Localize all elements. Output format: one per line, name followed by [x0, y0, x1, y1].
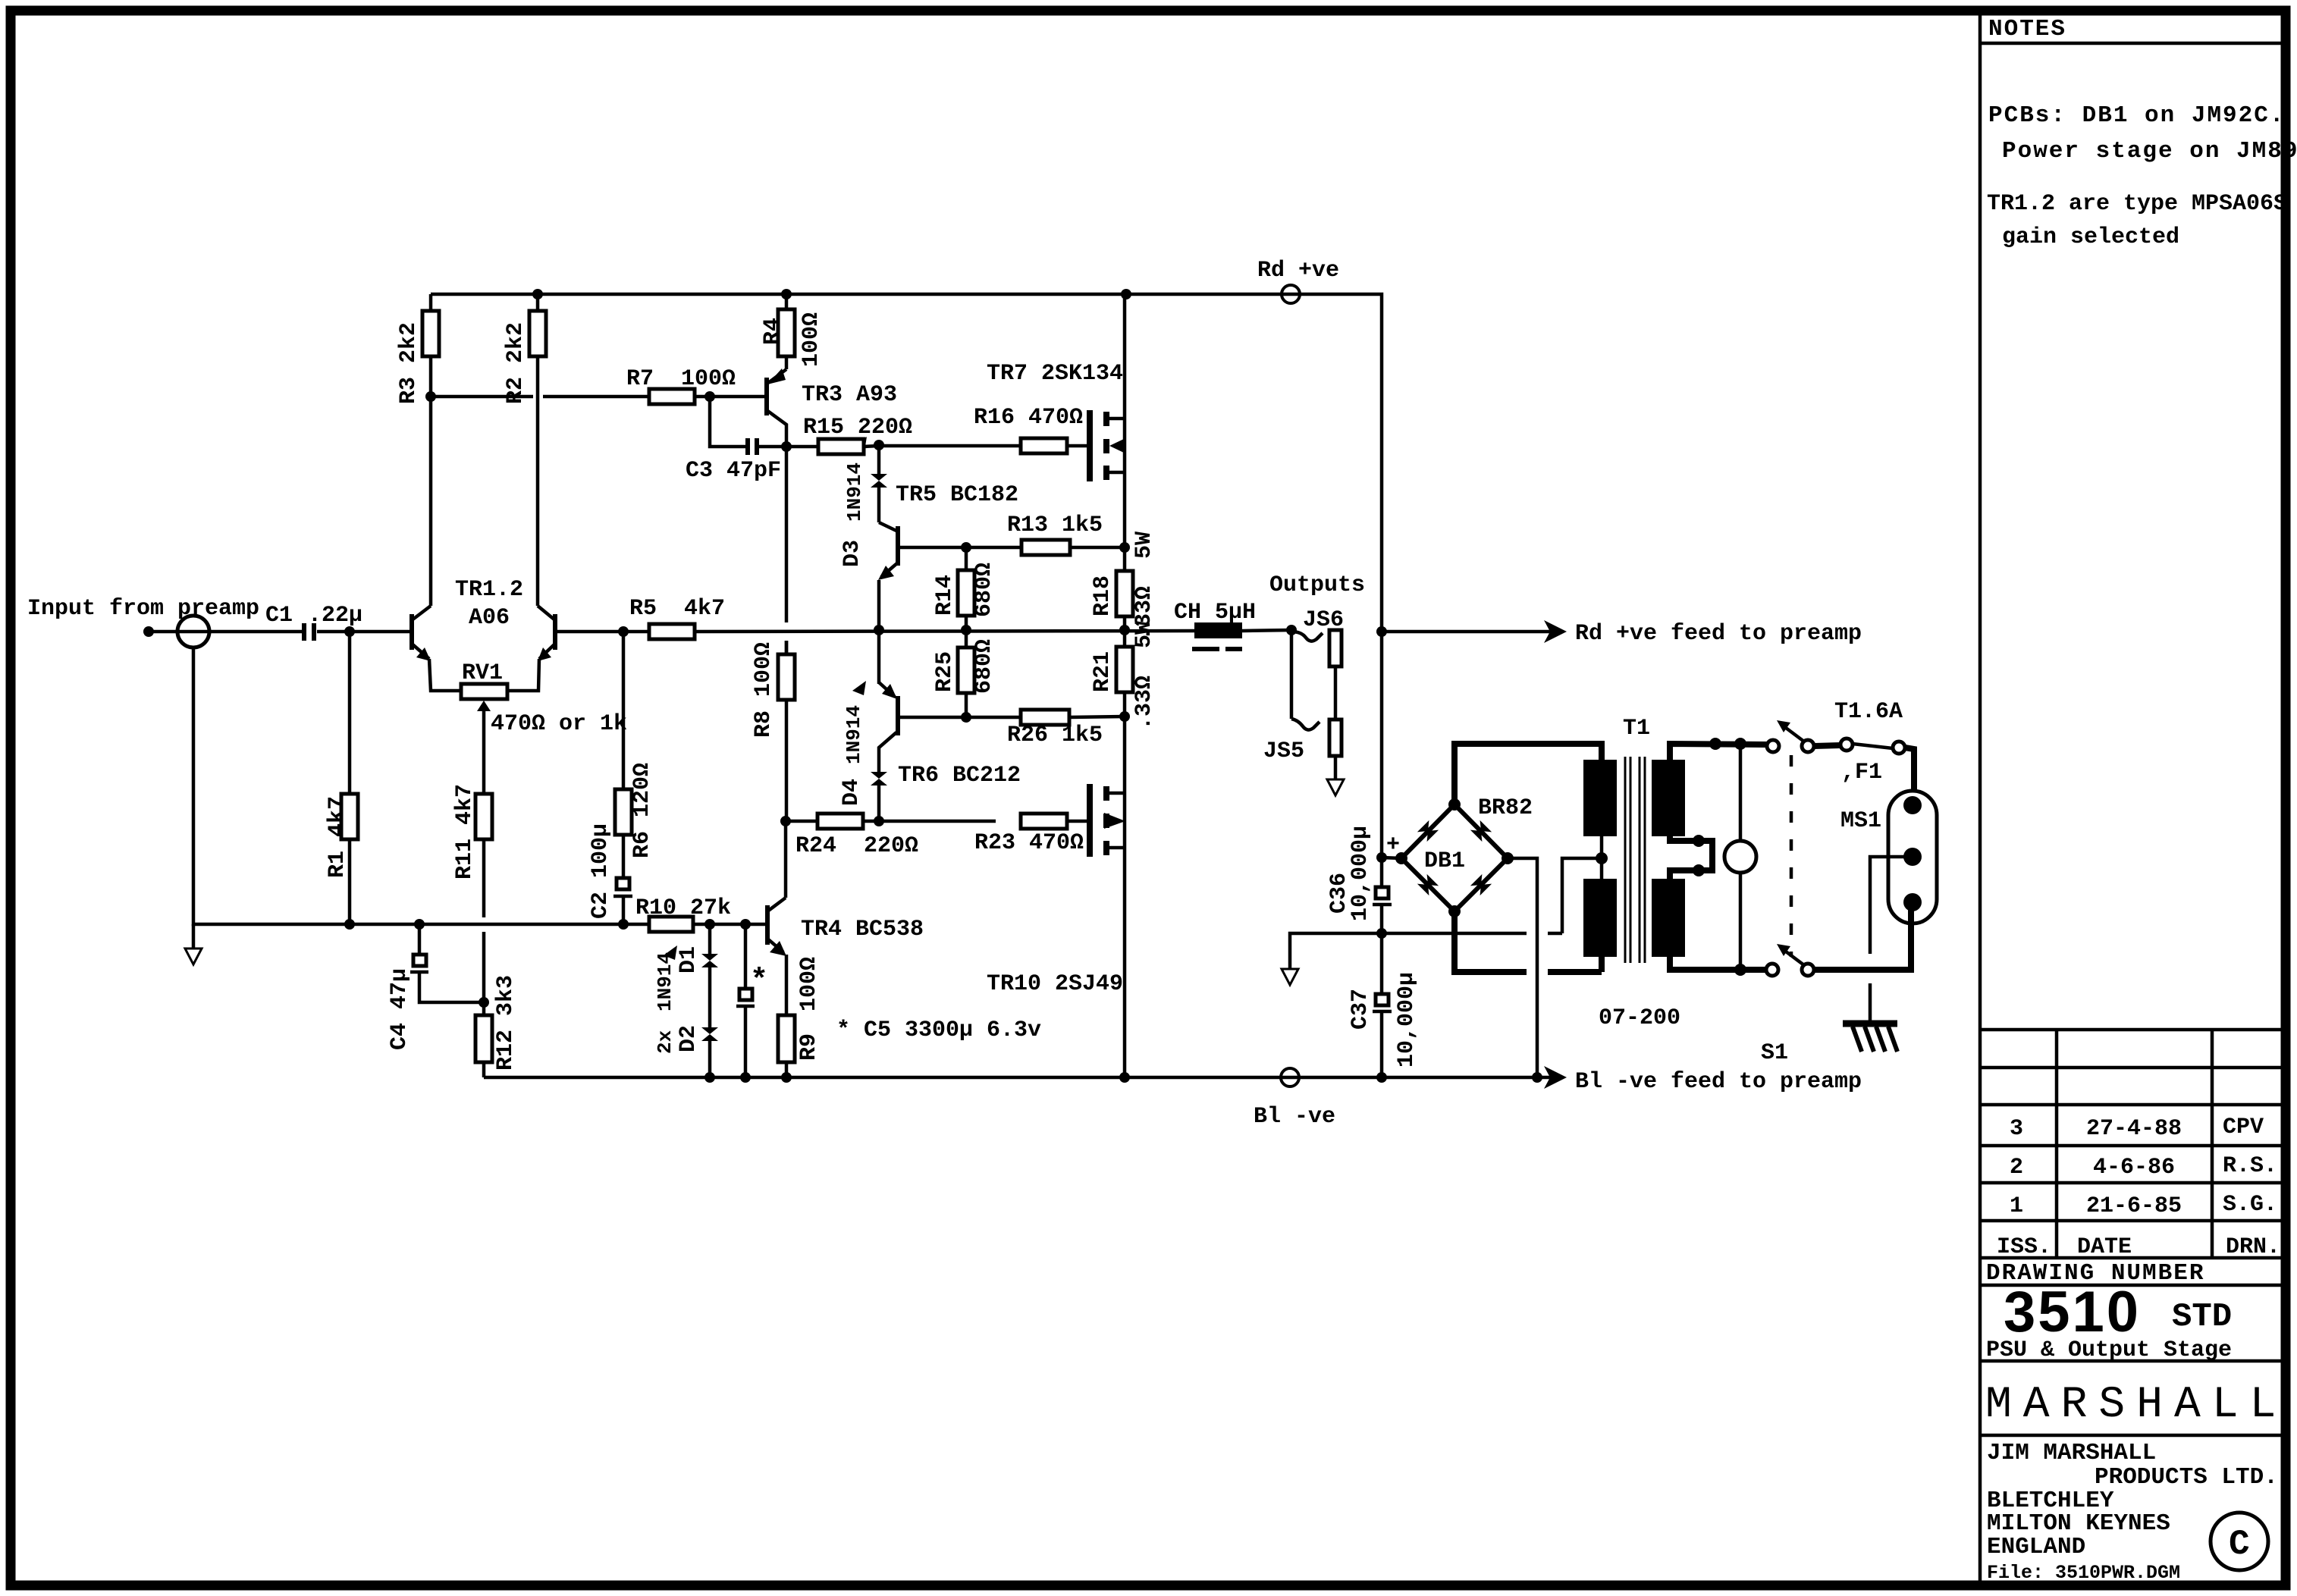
svg-text:TR10 2SJ49: TR10 2SJ49 — [987, 971, 1123, 997]
resistor R15 220ohm — [786, 445, 818, 449]
svg-text:R6 120Ω: R6 120Ω — [629, 763, 655, 858]
svg-text:R.S.: R.S. — [2223, 1153, 2277, 1179]
node C5 bottom — [740, 1072, 751, 1083]
node Rd+ve column / C36 top junction — [1376, 852, 1387, 863]
svg-text:R18: R18 — [1090, 575, 1116, 616]
node 0V junction C36/C37 — [1376, 928, 1387, 939]
mosfet TR7 2SK134 — [1087, 410, 1093, 481]
svg-text:PRODUCTS LTD.: PRODUCTS LTD. — [2095, 1464, 2278, 1491]
diode D1 1N914 — [708, 924, 712, 954]
svg-text:DB1: DB1 — [1424, 848, 1465, 874]
connector JS6 — [1291, 632, 1323, 641]
svg-text:3510: 3510 — [2004, 1280, 2141, 1344]
switch S1 upper pole — [1767, 740, 1779, 752]
svg-text:R16 470Ω: R16 470Ω — [974, 405, 1083, 431]
node top rail R4 — [781, 289, 792, 299]
svg-text:680Ω: 680Ω — [971, 639, 997, 694]
transformer T1 secondary winding lower — [1583, 879, 1617, 957]
svg-text:1N914: 1N914 — [843, 462, 866, 522]
resistor R10 27k — [649, 917, 693, 932]
diode DB1 top-left — [1417, 820, 1439, 842]
svg-text:R2 2k2: R2 2k2 — [503, 322, 529, 404]
svg-text:TR4 BC538: TR4 BC538 — [801, 917, 924, 942]
svg-text:2: 2 — [2010, 1155, 2023, 1181]
svg-text:3: 3 — [2010, 1116, 2023, 1142]
transistor TR4 BC538 — [765, 905, 770, 945]
node C2 bottom — [618, 919, 629, 930]
wire Rd +ve feed to preamp — [1382, 630, 1551, 634]
svg-text:T1: T1 — [1623, 716, 1650, 742]
transistor TR1 (A06) — [410, 614, 414, 650]
svg-text:TR3 A93: TR3 A93 — [802, 382, 897, 408]
svg-text:2x: 2x — [654, 1030, 676, 1054]
svg-text:RV1: RV1 — [462, 660, 503, 686]
capacitor C2 100u — [617, 878, 629, 889]
node top rail R2 — [532, 289, 543, 299]
resistor R9 100ohm — [785, 955, 789, 1015]
connector JS5 — [1290, 632, 1294, 719]
svg-text:10,000µ: 10,000µ — [1348, 826, 1373, 921]
Revision table text — [1986, 1115, 2280, 1287]
svg-text:MARSHALL: MARSHALL — [1985, 1381, 2287, 1430]
svg-text:gain selected: gain selected — [2002, 224, 2179, 250]
transformer T1 primary winding lower — [1652, 879, 1685, 957]
switch S1 lower pole — [1766, 964, 1778, 976]
resistor R6 120ohm — [622, 632, 626, 789]
node R14 top / TR5 base — [961, 542, 971, 553]
svg-text:R5 4k7: R5 4k7 — [629, 596, 725, 622]
transformer T1 secondary winding upper — [1583, 760, 1617, 836]
resistor R4 100ohm — [785, 294, 789, 309]
svg-text:R21: R21 — [1090, 651, 1116, 692]
fuse F1 T1.6A — [1840, 738, 1853, 751]
svg-text:C37: C37 — [1348, 989, 1373, 1030]
wire DB1 top to secondary winding — [1454, 744, 1602, 804]
svg-text:DRN.: DRN. — [2226, 1234, 2280, 1260]
svg-text:MS1: MS1 — [1840, 808, 1881, 834]
node Bl -ve terminal circle — [1281, 1068, 1299, 1086]
node R24/D4 junction — [874, 816, 884, 826]
wire S1 lower to MS1 bottom pin — [1814, 902, 1911, 970]
wire primary top lead — [1670, 744, 1767, 760]
transformer T1 core — [1625, 757, 1645, 963]
svg-text:A06: A06 — [469, 605, 510, 631]
capacitor C1 — [302, 623, 306, 641]
svg-text:* C5 3300µ 6.3v: * C5 3300µ 6.3v — [836, 1017, 1041, 1043]
resistor R18 .33ohm 5W — [1123, 547, 1127, 571]
svg-text:*: * — [750, 964, 768, 999]
svg-text:JIM MARSHALL: JIM MARSHALL — [1987, 1440, 2156, 1466]
node R3 bottom junction — [425, 391, 436, 402]
svg-text:R7 100Ω: R7 100Ω — [626, 366, 736, 392]
svg-text:TR7 2SK134: TR7 2SK134 — [987, 361, 1123, 387]
resistor R7 100ohm — [649, 389, 695, 404]
node Rd +ve terminal circle — [1282, 285, 1300, 303]
node C4 top — [414, 919, 425, 930]
resistor R21 .33ohm 5W — [1123, 630, 1127, 647]
svg-text:CPV: CPV — [2223, 1115, 2264, 1140]
svg-text:R26 1k5: R26 1k5 — [1007, 723, 1103, 748]
svg-text:R15 220Ω: R15 220Ω — [803, 415, 912, 441]
node R7/C3 junction — [704, 391, 715, 402]
svg-text:C4 47µ: C4 47µ — [387, 968, 413, 1050]
svg-text:ISS.: ISS. — [1997, 1234, 2051, 1260]
svg-text:STD: STD — [2172, 1298, 2232, 1336]
svg-text:S1: S1 — [1761, 1040, 1788, 1066]
node output line / R18 / R21 — [1119, 625, 1130, 635]
resistor R25 680ohm — [965, 630, 968, 647]
ground chassis earth — [1843, 1021, 1897, 1027]
resistor R12 3k3 — [475, 1015, 492, 1062]
resistor R13 1k5 — [1021, 540, 1070, 555]
svg-text:TR6 BC212: TR6 BC212 — [898, 763, 1021, 789]
wire Bl -ve rail — [484, 1076, 1551, 1080]
node D2 bottom — [704, 1072, 715, 1083]
node C1/R1 junction — [344, 626, 355, 637]
svg-text:Rd +ve feed to preamp: Rd +ve feed to preamp — [1575, 621, 1862, 647]
node R15/D3 junction — [874, 440, 884, 450]
node R9 bottom — [781, 1072, 792, 1083]
svg-text:R8 100Ω: R8 100Ω — [751, 642, 777, 738]
node output / JS6 junction — [1286, 625, 1297, 635]
svg-text:MILTON KEYNES: MILTON KEYNES — [1987, 1510, 2170, 1537]
svg-text:TR1.2 are type MPSA06S: TR1.2 are type MPSA06S — [1987, 191, 2287, 217]
node R21/R26/TR10 source — [1119, 711, 1130, 722]
diode DB1 top-right — [1470, 820, 1492, 842]
svg-text:T1.6A: T1.6A — [1834, 699, 1903, 725]
diode DB1 bottom-right — [1470, 874, 1492, 895]
wire TR2 base to R5 — [555, 630, 649, 634]
node R1 bottom — [344, 919, 355, 930]
svg-text:21-6-85: 21-6-85 — [2086, 1193, 2182, 1219]
resistor R8 100ohm — [785, 641, 789, 654]
transistor TR6 BC212 — [896, 696, 900, 735]
node input terminal dot — [143, 626, 154, 637]
mains socket MS1 — [1888, 791, 1937, 923]
wire S1 to fuse — [1814, 745, 1840, 746]
diode DB1 bottom-left — [1417, 874, 1439, 895]
transistor TR5 BC182 — [896, 526, 900, 566]
node C37 bottom — [1376, 1072, 1387, 1083]
wire mid ground rail — [350, 923, 649, 927]
node top rail TR7 drain — [1121, 289, 1131, 299]
capacitor C3 47pF — [710, 397, 746, 447]
svg-text:,F1: ,F1 — [1841, 760, 1882, 785]
svg-text:S.G.: S.G. — [2223, 1192, 2277, 1218]
svg-text:Rd +ve: Rd +ve — [1257, 258, 1339, 284]
svg-text:27-4-88: 27-4-88 — [2086, 1116, 2182, 1142]
svg-text:.33Ω 5W: .33Ω 5W — [1131, 621, 1157, 730]
node input circle — [177, 616, 209, 647]
copyright C mark — [2211, 1513, 2268, 1570]
lamp neon indicator — [1739, 744, 1743, 841]
node TR7 source / R13 / R18 — [1119, 542, 1130, 553]
ground input arrow — [192, 924, 196, 949]
svg-text:C1: C1 — [265, 603, 293, 629]
wire 0V line to ground arrow — [1290, 933, 1382, 969]
svg-text:Outputs: Outputs — [1269, 572, 1365, 598]
wire TR4 collector up to R8/R24 node — [784, 821, 788, 898]
node C4/R11/R12 junction — [479, 997, 489, 1008]
svg-text:C2 100µ: C2 100µ — [588, 823, 613, 919]
node C5 top — [740, 919, 751, 930]
resistor R11 4k7 — [475, 794, 492, 839]
resistor R5 4k7 — [649, 624, 695, 639]
node D1 top — [704, 919, 715, 930]
resistor R23 470ohm — [1021, 814, 1067, 829]
svg-text:1N914: 1N914 — [843, 705, 865, 764]
svg-text:100Ω: 100Ω — [796, 957, 822, 1011]
capacitor C5 (star) — [744, 924, 748, 989]
svg-text:10,000µ: 10,000µ — [1394, 972, 1420, 1068]
svg-text:R10 27k: R10 27k — [635, 895, 731, 921]
node TR10 drain bottom — [1119, 1072, 1130, 1083]
wire top supply rail Rd +ve — [431, 294, 1382, 858]
wire TR1 collector to R3 — [429, 397, 433, 606]
transistor TR3 A93 — [764, 378, 769, 415]
wire MS1 earth pin to chassis — [1870, 857, 1904, 954]
svg-text:R14: R14 — [932, 575, 958, 616]
wire 0V line to transformer centre tap — [1382, 932, 1527, 936]
node TR3 collector / C3 / R15 — [781, 441, 792, 452]
svg-text:BR82: BR82 — [1478, 795, 1533, 821]
Address block — [1987, 1440, 2278, 1584]
svg-text:JS5: JS5 — [1263, 738, 1304, 764]
wire secondary centre tap — [1600, 836, 1604, 879]
resistor R26 1k5 — [1021, 710, 1069, 725]
svg-text:D3: D3 — [839, 540, 865, 567]
svg-text:R4: R4 — [760, 318, 786, 345]
svg-text:R12 3k3: R12 3k3 — [493, 975, 519, 1071]
svg-text:Bl -ve: Bl -ve — [1254, 1104, 1335, 1130]
node R14/R25 on output line — [961, 625, 971, 635]
diode D2 1N914 — [701, 1027, 718, 1034]
svg-text:R13 1k5: R13 1k5 — [1007, 513, 1103, 538]
wire primary bottom lead — [1670, 957, 1766, 970]
svg-text:1N914: 1N914 — [654, 952, 676, 1011]
svg-text:R9: R9 — [796, 1033, 822, 1061]
svg-text:D4: D4 — [839, 779, 865, 806]
resistor R3 2k2 — [429, 356, 433, 397]
node R8/R24/TR4 collector — [780, 816, 791, 826]
ground 0V arrow — [1282, 969, 1298, 985]
svg-text:PSU & Output Stage: PSU & Output Stage — [1986, 1337, 2232, 1363]
wire R15 junction to R16 — [879, 444, 1021, 448]
node DB1 right column bottom — [1532, 1072, 1542, 1083]
wire S1 dashed link — [1790, 755, 1793, 957]
node TR5/TR6 emitters on output line — [874, 625, 884, 635]
capacitor C36 10,000u — [1380, 858, 1384, 887]
svg-text:R3 2k2: R3 2k2 — [396, 322, 422, 404]
wire primary series link — [1670, 836, 1712, 879]
svg-text:CH 5µH: CH 5µH — [1174, 600, 1256, 626]
mosfet TR10 2SJ49 — [1123, 716, 1127, 793]
wire input ground drop — [193, 647, 350, 924]
svg-text:R1 4k7: R1 4k7 — [325, 796, 350, 878]
diode D3 1N914 — [877, 488, 881, 522]
svg-text:Power stage on JM89D: Power stage on JM89D — [2002, 138, 2297, 165]
resistor R14 680ohm — [965, 547, 968, 570]
resistor R16 470ohm — [1021, 438, 1067, 453]
diode D4 1N914 — [877, 785, 881, 821]
svg-text:Input from preamp: Input from preamp — [27, 596, 259, 622]
svg-text:R25: R25 — [932, 651, 958, 692]
wire DB1 bottom to secondary winding — [1454, 911, 1527, 972]
svg-text:R24 220Ω: R24 220Ω — [795, 833, 918, 859]
svg-text:Bl -ve feed to preamp: Bl -ve feed to preamp — [1575, 1069, 1862, 1095]
svg-text:100Ω: 100Ω — [799, 312, 824, 367]
Drawing number block — [1986, 1280, 2232, 1363]
wire R3-R7 base line — [431, 395, 533, 399]
node R6 top junction — [618, 626, 629, 637]
svg-text:ENGLAND: ENGLAND — [1987, 1534, 2085, 1560]
svg-text:NOTES: NOTES — [1988, 16, 2066, 42]
svg-text:DATE: DATE — [2077, 1234, 2132, 1260]
svg-text:07-200: 07-200 — [1599, 1005, 1680, 1031]
resistor R1 4k7 — [348, 632, 352, 794]
wire JS5 output drop with open arrow — [1334, 756, 1338, 779]
svg-text:C: C — [2229, 1525, 2250, 1564]
svg-text:D1: D1 — [676, 946, 701, 974]
bridge rectifier DB1 — [1401, 804, 1508, 911]
svg-text:4-6-86: 4-6-86 — [2093, 1155, 2175, 1181]
svg-text:1: 1 — [2010, 1193, 2023, 1219]
capacitor C4 47u — [418, 924, 422, 955]
svg-text:R23 470Ω: R23 470Ω — [974, 830, 1084, 856]
wire TR3 collector drop (crossover at main line) — [785, 447, 789, 622]
svg-text:.22µ: .22µ — [308, 603, 362, 629]
svg-text:File: 3510PWR.DGM: File: 3510PWR.DGM — [1987, 1562, 2180, 1584]
node R25 bottom / TR6 base — [961, 712, 971, 723]
capacitor C37 10,000u — [1380, 933, 1384, 994]
svg-text:JS6: JS6 — [1303, 607, 1344, 633]
svg-text:TR1.2: TR1.2 — [455, 577, 523, 603]
transformer T1 primary winding upper — [1652, 760, 1685, 836]
wire main signal line — [153, 630, 302, 634]
svg-text:680Ω: 680Ω — [971, 563, 997, 617]
svg-text:TR5 BC182: TR5 BC182 — [896, 482, 1018, 508]
resistor R24 220ohm — [786, 820, 817, 823]
svg-text:D2: D2 — [676, 1025, 701, 1052]
MARSHALL logo — [1985, 1381, 2287, 1430]
wire C36 junction to DB1 left — [1382, 858, 1401, 858]
wire DB1 right to Bl-ve rail — [1508, 858, 1537, 1077]
NOTES panel text — [1987, 16, 2297, 250]
svg-text:470Ω or 1k: 470Ω or 1k — [491, 711, 627, 737]
resistor R2 2k2 — [536, 294, 540, 311]
svg-text:C3 47pF: C3 47pF — [686, 458, 781, 484]
svg-text:PCBs: DB1 on JM92C.: PCBs: DB1 on JM92C. — [1988, 102, 2285, 129]
inductor CH 5uH — [1194, 622, 1242, 638]
transistor TR2 (A06) — [553, 614, 557, 650]
potentiometer RV1 — [429, 659, 461, 691]
svg-text:R11 4k7: R11 4k7 — [452, 784, 478, 880]
wire fuse to MS1 live pin — [1905, 748, 1914, 805]
